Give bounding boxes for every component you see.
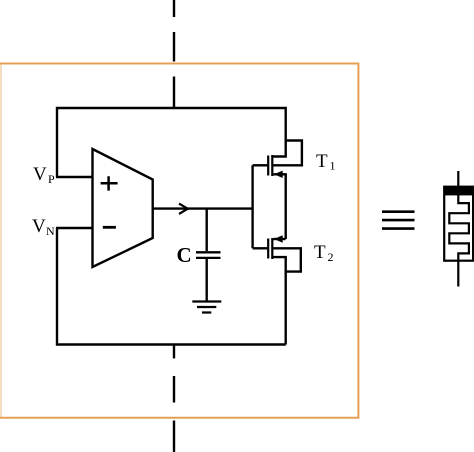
svg-text:P: P: [48, 172, 55, 186]
svg-text:1: 1: [330, 159, 336, 173]
svg-text:T: T: [314, 242, 326, 263]
svg-text:N: N: [46, 224, 55, 238]
svg-text:C: C: [177, 243, 192, 267]
svg-text:V: V: [33, 164, 47, 185]
svg-text:V: V: [32, 216, 46, 237]
svg-text:2: 2: [328, 250, 334, 264]
svg-text:T: T: [316, 151, 328, 172]
